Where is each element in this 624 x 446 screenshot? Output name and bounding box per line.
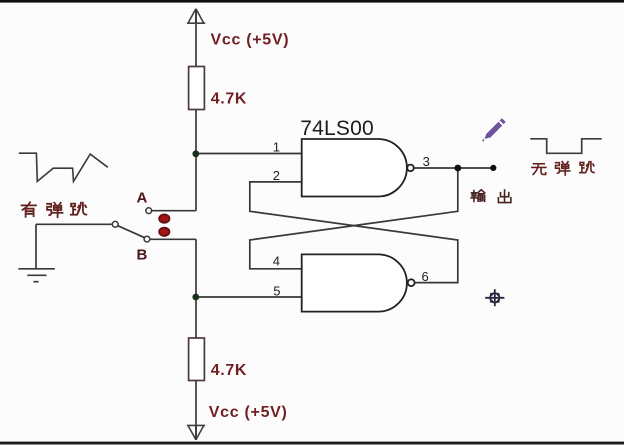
svg-text:6: 6 — [422, 269, 429, 284]
svg-text:1: 1 — [273, 140, 280, 155]
svg-text:4.7K: 4.7K — [211, 362, 247, 379]
svg-text:A: A — [137, 189, 148, 206]
svg-text:4: 4 — [273, 253, 280, 268]
svg-text:Vcc (+5V): Vcc (+5V) — [211, 31, 290, 48]
svg-text:3: 3 — [423, 154, 430, 169]
svg-text:5: 5 — [273, 283, 280, 298]
svg-text:Vcc (+5V): Vcc (+5V) — [209, 404, 288, 421]
svg-text:2: 2 — [273, 168, 280, 183]
svg-text:B: B — [137, 247, 148, 264]
svg-text:74LS00: 74LS00 — [300, 117, 374, 140]
svg-text:4.7K: 4.7K — [211, 91, 247, 108]
